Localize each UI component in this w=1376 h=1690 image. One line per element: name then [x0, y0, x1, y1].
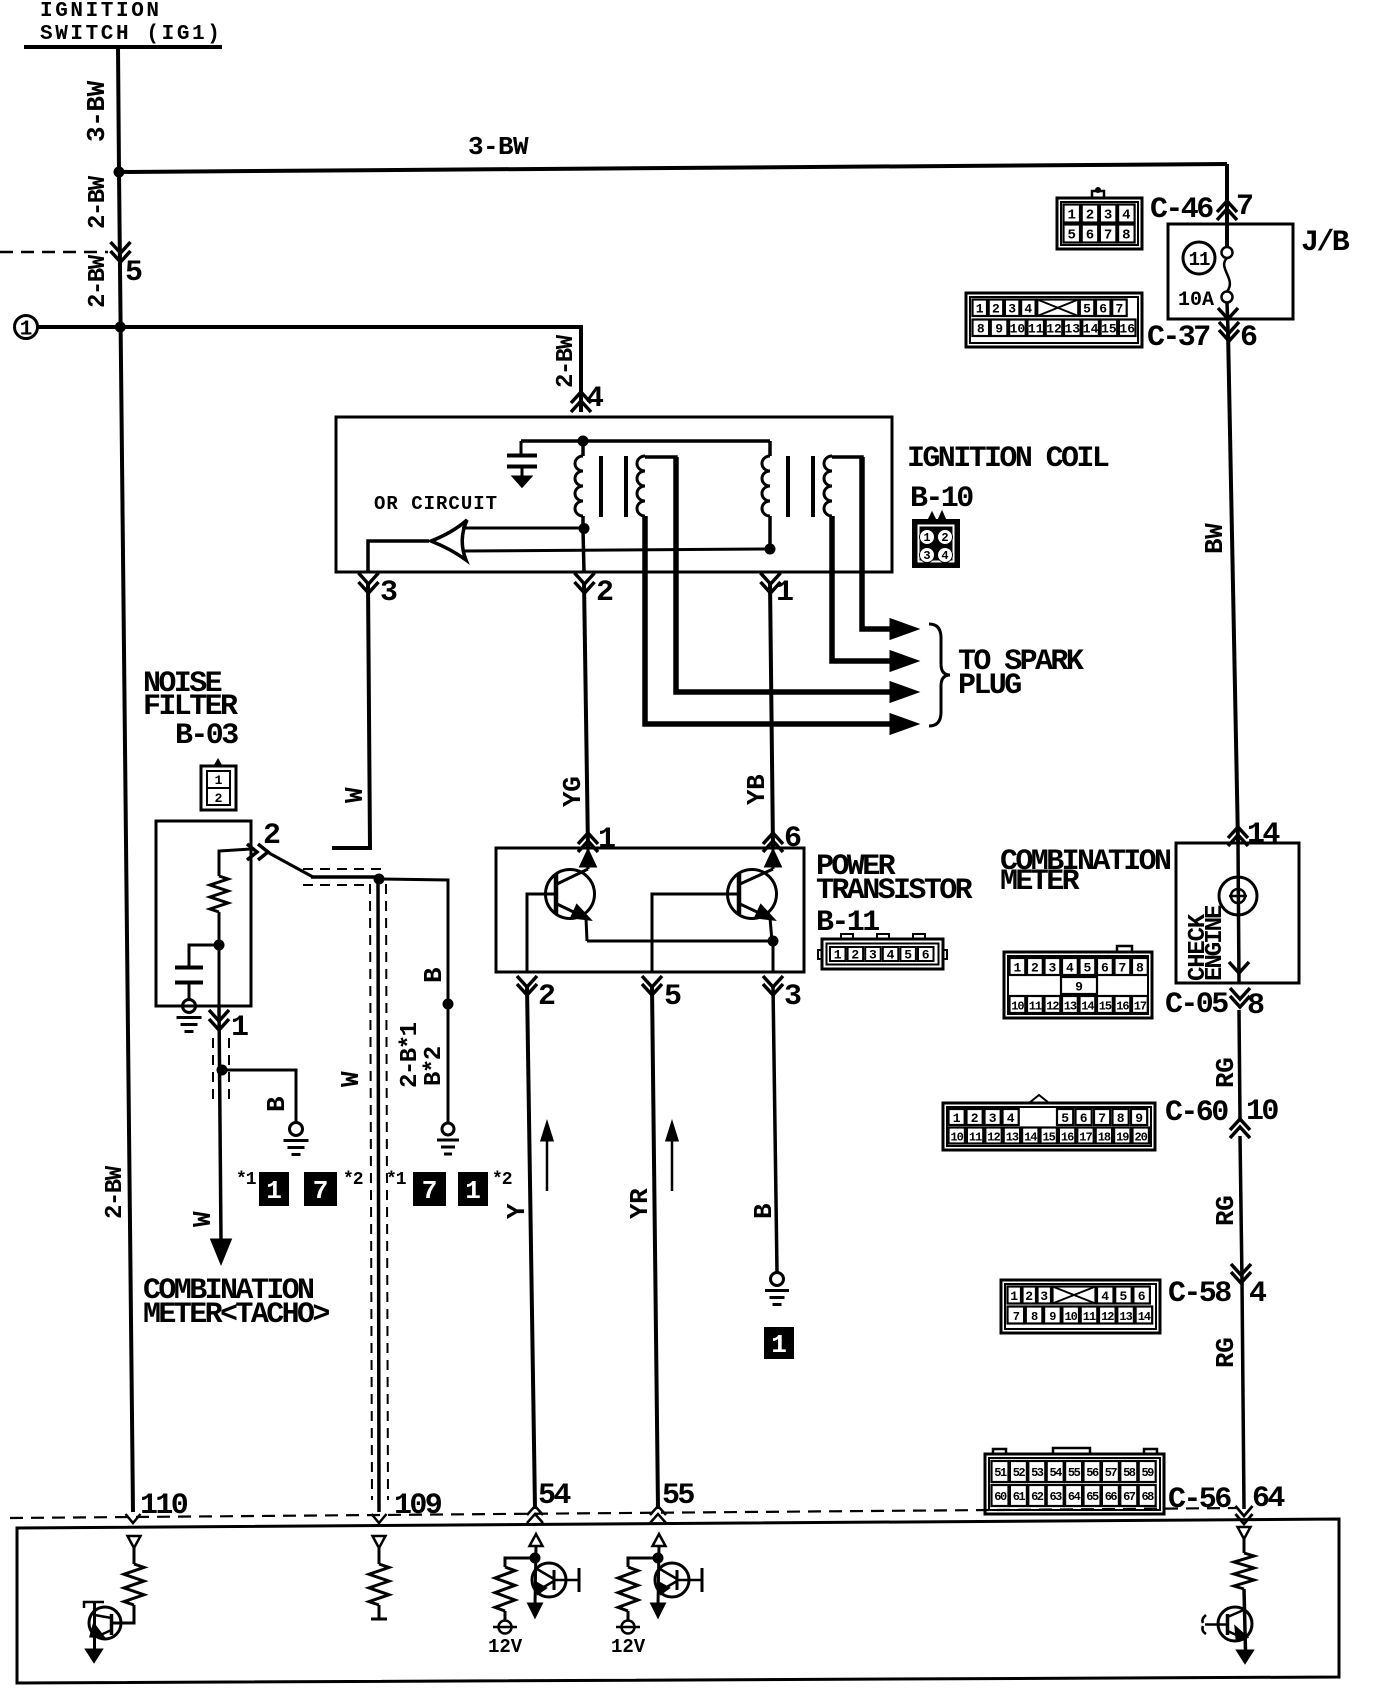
wire W shield core down to 109	[378, 877, 379, 1512]
OR circuit gate	[431, 520, 467, 560]
svg-text:1: 1	[776, 576, 793, 610]
terminal 54 arrow	[527, 1506, 543, 1515]
svg-text:16: 16	[1061, 1131, 1074, 1145]
connector arrow 5 on left wire	[111, 242, 131, 253]
fuse exit arrow	[1218, 308, 1238, 319]
transformer 1 primary winding	[575, 441, 583, 529]
svg-text:2: 2	[851, 948, 859, 963]
ignition coil box B-10 outline	[336, 417, 892, 572]
transistor Q2 base bar	[737, 874, 742, 914]
label 2-BW upper	[85, 175, 112, 229]
connector icon C-56	[985, 1448, 1164, 1514]
label Y	[502, 1203, 532, 1219]
supply 12V symbol 54	[493, 1611, 517, 1634]
transistor Q1 circle	[546, 870, 595, 919]
spark plug wire 4	[645, 516, 893, 724]
svg-text:7: 7	[1115, 302, 1123, 317]
svg-text:14: 14	[1247, 818, 1280, 852]
transformer 2 secondary bottom lead	[830, 516, 834, 572]
svg-text:2: 2	[1031, 961, 1039, 976]
spark arrowhead 4	[891, 715, 916, 733]
svg-text:57: 57	[1105, 1466, 1118, 1480]
noise filter pin 2 arrow	[247, 844, 257, 860]
label W mid	[188, 1211, 218, 1227]
resistor R55	[618, 1567, 638, 1611]
label YB	[742, 774, 772, 805]
wire through meter	[1238, 843, 1239, 983]
connector C-05 arrow 8	[1230, 988, 1250, 999]
svg-text:6: 6	[1101, 961, 1109, 976]
wire primary1 bottom to terminal 2	[583, 529, 584, 572]
svg-text:1: 1	[598, 823, 615, 857]
svg-text:1: 1	[215, 773, 223, 788]
svg-text:19: 19	[1116, 1131, 1129, 1145]
emitter link wire	[587, 940, 773, 943]
label RG 1	[1211, 1058, 1241, 1088]
svg-text:Y: Y	[502, 1203, 532, 1219]
svg-text:5: 5	[1083, 961, 1091, 976]
noise filter capacitor	[175, 968, 203, 1001]
label YR	[625, 1188, 655, 1219]
terminal 54 pin triangle	[530, 1534, 543, 1546]
wire Y pin2 to terminal 54	[527, 986, 535, 1509]
svg-text:14: 14	[1083, 322, 1099, 337]
junction ignition switch / 3-BW horizontal	[114, 167, 125, 178]
svg-text:13: 13	[1119, 1310, 1132, 1324]
wire 54 down	[535, 1546, 536, 1605]
svg-text:7: 7	[1236, 190, 1252, 224]
label W on wire	[340, 787, 370, 803]
svg-text:B-03: B-03	[175, 719, 238, 753]
terminal 110 arrow	[126, 1514, 141, 1523]
svg-text:54: 54	[538, 1479, 571, 1513]
ground symbol tacho branch	[290, 1123, 303, 1136]
svg-text:10: 10	[1010, 322, 1026, 337]
connector C-46 arrow 7	[1217, 201, 1237, 212]
connector icon C-05	[1004, 946, 1152, 1018]
svg-text:1: 1	[1013, 961, 1021, 976]
label 3-BW vertical	[82, 80, 112, 142]
label NOISE FILTER B-03	[143, 667, 238, 753]
svg-text:*1: *1	[236, 1170, 257, 1190]
svg-text:16: 16	[1119, 322, 1135, 337]
svg-text:4: 4	[1024, 302, 1032, 317]
svg-text:W: W	[336, 1071, 366, 1087]
svg-text:8: 8	[1031, 1310, 1038, 1324]
transistor Q1 base lead to pin 2	[527, 894, 556, 972]
label RG 2	[1211, 1196, 1241, 1226]
svg-text:55: 55	[1068, 1466, 1081, 1480]
flow arrow up YR	[667, 1124, 677, 1191]
label B right branch	[419, 967, 449, 983]
wire B pin3 to ground	[773, 986, 777, 1272]
label BW	[1200, 523, 1230, 554]
svg-text:C-58: C-58	[1168, 1277, 1231, 1311]
label YG	[558, 777, 588, 807]
wire 54 to resistor	[505, 1558, 535, 1567]
wire from node 1 to coil terminal 4	[38, 327, 581, 412]
svg-text:53: 53	[1031, 1466, 1044, 1480]
OR gate input from primary 2	[464, 549, 770, 551]
svg-text:1: 1	[20, 319, 33, 342]
svg-text:2-BW: 2-BW	[85, 175, 112, 229]
resistor R64	[1234, 1553, 1254, 1589]
svg-text:7: 7	[1013, 1310, 1020, 1324]
svg-text:4: 4	[586, 382, 604, 416]
power transistor pin 2 arrow	[517, 976, 537, 987]
label POWER TRANSISTOR B-11	[816, 850, 973, 940]
footnote box 1 left	[259, 1172, 289, 1206]
wire 55 to resistor	[628, 1558, 658, 1567]
svg-text:63: 63	[1049, 1490, 1062, 1504]
ground branch wire B	[222, 1070, 296, 1123]
spark plug brace	[929, 624, 950, 726]
shield dashes around W wire	[213, 1038, 229, 1102]
svg-text:12V: 12V	[611, 1636, 646, 1658]
connector C-60 arrow 10	[1230, 1119, 1250, 1130]
svg-text:7: 7	[313, 1176, 329, 1206]
transformer 2 core	[788, 456, 813, 517]
svg-text:12: 12	[1101, 1310, 1114, 1324]
svg-text:2-BW: 2-BW	[85, 254, 112, 308]
transistor Q54	[532, 1563, 579, 1597]
power transistor pin 3 arrow	[763, 976, 783, 987]
svg-text:5: 5	[1119, 1289, 1127, 1304]
wire 3-BW horizontal to J/B	[119, 164, 1227, 172]
resistor R54	[495, 1567, 515, 1611]
capacitor in ignition coil	[507, 441, 537, 486]
svg-text:2: 2	[596, 576, 613, 610]
svg-text:4: 4	[1122, 208, 1130, 224]
svg-text:68: 68	[1141, 1490, 1154, 1504]
svg-text:4: 4	[1066, 961, 1074, 976]
wire 109 to resistor	[378, 1548, 381, 1564]
ECU dashed boundary	[10, 1508, 1238, 1518]
svg-text:2-BW: 2-BW	[102, 1165, 129, 1219]
svg-text:2: 2	[992, 302, 1000, 317]
coil terminal 3 arrow	[359, 573, 379, 584]
svg-text:1: 1	[1067, 208, 1075, 224]
junction W wire / ground branch	[217, 1065, 228, 1076]
junction primary2 / OR input	[765, 544, 776, 555]
svg-text:C-46: C-46	[1150, 193, 1213, 227]
connector C-37 arrow 6	[1219, 322, 1239, 333]
wire 3-BW vertical from ignition switch	[118, 47, 119, 172]
transistor Q2 circle	[728, 870, 777, 919]
svg-text:20: 20	[1134, 1131, 1147, 1145]
noise filter internal wire to resistor	[219, 849, 251, 876]
svg-text:3: 3	[869, 948, 877, 963]
junction 55 base	[653, 1553, 664, 1564]
connector icon C-60	[943, 1095, 1155, 1150]
svg-text:3: 3	[380, 576, 397, 610]
transistor Q2 collector lead	[740, 848, 780, 884]
wire to pin 3	[772, 941, 775, 972]
svg-text:5: 5	[1061, 1111, 1069, 1126]
wire resistor to Q64	[1244, 1589, 1246, 1651]
svg-text:8: 8	[1122, 228, 1130, 244]
svg-text:3: 3	[1048, 961, 1056, 976]
transistor Q55	[655, 1563, 702, 1597]
svg-text:16: 16	[1116, 1000, 1129, 1014]
wire BW right vertical	[1225, 164, 1229, 247]
svg-text:18: 18	[1098, 1131, 1111, 1145]
svg-text:RG: RG	[1211, 1196, 1241, 1226]
connector icon C-37	[966, 293, 1142, 347]
footnote box 1 bottom	[764, 1327, 794, 1360]
connector C-58 arrow 4	[1231, 1264, 1251, 1275]
svg-text:C-05: C-05	[1165, 988, 1228, 1022]
svg-text:3: 3	[1104, 208, 1112, 224]
svg-text:B: B	[749, 1203, 779, 1219]
shield dashes vertical to 109	[370, 884, 388, 1500]
label 2-BW bottom left	[102, 1165, 129, 1219]
svg-text:3: 3	[1008, 302, 1016, 317]
wire RG C-60 to C-58	[1240, 1136, 1242, 1281]
transformer 1 secondary winding	[637, 456, 645, 516]
node 1 circled terminal	[15, 316, 38, 342]
svg-text:7: 7	[1098, 1111, 1106, 1126]
label RG 3	[1211, 1338, 1241, 1368]
noise filter internal ground	[183, 1000, 196, 1013]
terminal 55 pin triangle	[653, 1534, 666, 1546]
svg-text:C-37: C-37	[1147, 321, 1209, 355]
noise filter box B-03 outline	[156, 821, 251, 1006]
transistor Q2 emitter	[740, 904, 773, 941]
svg-text:YB: YB	[742, 774, 772, 805]
label B*2	[421, 1047, 448, 1086]
wire 55 down	[658, 1546, 659, 1605]
meter exit arrow	[1229, 962, 1249, 973]
svg-text:59: 59	[1141, 1466, 1154, 1480]
coil terminal 1 arrow	[761, 573, 781, 584]
svg-text:2-B*1: 2-B*1	[397, 1022, 424, 1088]
svg-text:1: 1	[976, 302, 984, 317]
svg-text:6: 6	[1138, 1289, 1146, 1304]
svg-text:52: 52	[1013, 1466, 1026, 1480]
power transistor pin 5 arrow	[642, 976, 662, 987]
noise filter resistor lower wire	[218, 912, 221, 1006]
wire RG C-05 to C-60	[1239, 1010, 1240, 1119]
svg-text:*1: *1	[386, 1170, 407, 1190]
svg-text:1: 1	[953, 1111, 961, 1126]
svg-text:15: 15	[1099, 1000, 1112, 1014]
svg-text:58: 58	[1123, 1466, 1136, 1480]
svg-text:64: 64	[1252, 1482, 1285, 1516]
transformer 1 secondary bottom lead	[643, 516, 647, 572]
svg-text:2-BW: 2-BW	[553, 334, 580, 388]
svg-text:6: 6	[1240, 321, 1257, 355]
svg-text:*2: *2	[492, 1170, 512, 1190]
terminal 109 arrow	[372, 1514, 387, 1523]
svg-text:B: B	[262, 1096, 292, 1112]
junction on B wire	[443, 999, 454, 1010]
svg-text:YR: YR	[625, 1188, 655, 1219]
footnote box 7 right	[413, 1172, 446, 1206]
wire YB coil 1 to power transistor 6	[770, 582, 773, 848]
svg-text:5: 5	[664, 980, 681, 1014]
svg-text:3: 3	[989, 1111, 997, 1126]
svg-text:11: 11	[1029, 1000, 1042, 1014]
svg-text:17: 17	[1079, 1131, 1092, 1145]
connector icon C-58	[1001, 1280, 1160, 1333]
check engine lamp	[1219, 877, 1257, 915]
svg-text:9: 9	[995, 322, 1003, 337]
svg-text:66: 66	[1105, 1490, 1118, 1504]
svg-text:12: 12	[1046, 1000, 1059, 1014]
svg-text:4: 4	[887, 948, 895, 963]
noise filter pin2 branch diagonal	[269, 853, 313, 877]
wire W coil terminal 3 to noise filter	[332, 582, 370, 848]
OR gate output wire to terminal 3	[368, 541, 429, 572]
svg-text:5: 5	[1067, 228, 1075, 244]
wire YR pin5 to terminal 55	[652, 986, 658, 1509]
svg-text:OR CIRCUIT: OR CIRCUIT	[374, 493, 498, 515]
label B ground branch	[262, 1096, 292, 1112]
wire W noise filter to tacho	[219, 1006, 221, 1240]
svg-text:6: 6	[1099, 302, 1107, 317]
svg-text:10: 10	[950, 1131, 963, 1145]
svg-text:BW: BW	[1200, 523, 1230, 554]
svg-text:3-BW: 3-BW	[82, 80, 112, 142]
shielded pair core horizontal	[311, 875, 378, 879]
svg-text:IGNITION COIL: IGNITION COIL	[907, 442, 1109, 476]
svg-text:61: 61	[1013, 1490, 1026, 1504]
svg-text:1: 1	[231, 1011, 248, 1045]
label COMBINATION METER TACHO	[143, 1274, 329, 1332]
spark arrowhead 1	[891, 620, 916, 638]
svg-text:9: 9	[1049, 1310, 1056, 1324]
svg-text:14: 14	[1024, 1131, 1037, 1145]
transformer 1 core	[601, 456, 626, 517]
resistor R109 end stub	[371, 1605, 387, 1619]
svg-text:*2: *2	[343, 1170, 363, 1190]
svg-text:6: 6	[1086, 228, 1094, 244]
svg-text:67: 67	[1123, 1490, 1136, 1504]
svg-text:54: 54	[1049, 1466, 1062, 1480]
svg-text:15: 15	[1042, 1131, 1055, 1145]
label B	[749, 1203, 779, 1219]
svg-text:10: 10	[1064, 1310, 1077, 1324]
svg-text:9: 9	[1075, 980, 1083, 995]
spark arrowhead 2	[891, 652, 916, 670]
meter entry arrow 14	[1228, 827, 1248, 838]
wire 2-BW left vertical	[119, 172, 133, 1512]
label W at shield	[336, 1071, 366, 1087]
svg-text:RG: RG	[1211, 1058, 1241, 1088]
svg-text:3: 3	[784, 980, 801, 1014]
svg-text:C-56: C-56	[1168, 1483, 1231, 1517]
svg-text:13: 13	[1064, 322, 1080, 337]
svg-text:2: 2	[538, 980, 555, 1014]
wire 110 to resistor	[133, 1548, 136, 1564]
junction primary1 / OR input	[579, 523, 590, 534]
svg-text:1: 1	[923, 531, 930, 545]
svg-text:PLUG: PLUG	[958, 669, 1021, 703]
connector icon B-11	[818, 934, 947, 969]
label COMBINATION METER	[1000, 845, 1171, 899]
svg-text:C-60: C-60	[1165, 1096, 1228, 1130]
svg-text:4: 4	[1007, 1111, 1015, 1126]
svg-text:ENGINE: ENGINE	[1202, 905, 1229, 981]
svg-text:7: 7	[1104, 228, 1112, 244]
svg-text:11: 11	[969, 1131, 982, 1145]
svg-text:6: 6	[784, 822, 801, 856]
svg-text:17: 17	[1134, 1000, 1147, 1014]
svg-text:13: 13	[1064, 1000, 1077, 1014]
svg-text:2: 2	[971, 1111, 979, 1126]
power transistor pin 6 arrow	[763, 833, 783, 844]
svg-text:10: 10	[1011, 1000, 1024, 1014]
svg-text:10: 10	[1246, 1095, 1278, 1129]
svg-text:B*2: B*2	[421, 1047, 448, 1086]
svg-text:12: 12	[987, 1131, 1000, 1145]
svg-text:8: 8	[1136, 961, 1144, 976]
svg-text:62: 62	[1031, 1490, 1044, 1504]
svg-text:1: 1	[266, 1176, 282, 1206]
ECU box outline	[17, 1519, 1339, 1683]
transistor Q1 emitter	[557, 904, 589, 941]
svg-text:6: 6	[1080, 1111, 1088, 1126]
svg-text:2: 2	[1025, 1289, 1033, 1304]
transistor Q1 collector lead	[557, 848, 595, 884]
svg-text:J/B: J/B	[1301, 226, 1350, 260]
svg-text:12: 12	[1046, 322, 1062, 337]
terminal 110 pin triangle	[128, 1536, 141, 1548]
svg-text:W: W	[340, 787, 370, 803]
svg-text:110: 110	[140, 1489, 188, 1523]
transistor Q2 base lead to pin 5	[652, 894, 739, 972]
label 2-BW below arrow 5	[85, 254, 112, 308]
svg-text:1: 1	[771, 1330, 787, 1360]
junction supply rail / primary 1	[578, 436, 589, 447]
svg-text:8: 8	[977, 322, 985, 337]
svg-text:64: 64	[1068, 1490, 1081, 1504]
label TO SPARK PLUG	[958, 645, 1084, 703]
resistor R110	[124, 1564, 144, 1605]
wire YG coil 2 to power transistor 1	[584, 582, 588, 848]
transformer 2 primary winding	[762, 441, 770, 549]
svg-text:1: 1	[465, 1176, 481, 1206]
wire RG C-58 to C-56	[1242, 1281, 1244, 1509]
wire resistor to Q110	[112, 1605, 135, 1623]
connector arrow 4 at coil	[571, 392, 591, 403]
svg-text:5: 5	[125, 256, 142, 290]
svg-text:11: 11	[1028, 322, 1044, 337]
svg-text:10A: 10A	[1178, 289, 1214, 312]
svg-text:W: W	[188, 1211, 218, 1227]
svg-text:2: 2	[1086, 208, 1094, 224]
svg-text:RG: RG	[1211, 1338, 1241, 1368]
svg-text:METER<TACHO>: METER<TACHO>	[143, 1298, 329, 1332]
connector icon B-03	[201, 759, 236, 810]
junction node1 wire / left wire	[115, 322, 126, 333]
svg-text:7: 7	[422, 1176, 438, 1206]
svg-text:51: 51	[994, 1466, 1007, 1480]
svg-text:2: 2	[263, 819, 280, 853]
svg-text:1: 1	[834, 948, 842, 963]
transistor Q64	[1202, 1607, 1252, 1641]
svg-text:15: 15	[1101, 322, 1117, 337]
shielded pair horizontal shield	[303, 869, 385, 885]
footnote box 7 left	[304, 1172, 337, 1206]
svg-text:14: 14	[1138, 1310, 1151, 1324]
label CHECK ENGINE	[1185, 905, 1229, 981]
spark arrowhead 3	[891, 683, 916, 701]
wire 64 to resistor	[1243, 1539, 1246, 1553]
combination meter box	[1176, 843, 1299, 983]
svg-text:14: 14	[1081, 1000, 1094, 1014]
